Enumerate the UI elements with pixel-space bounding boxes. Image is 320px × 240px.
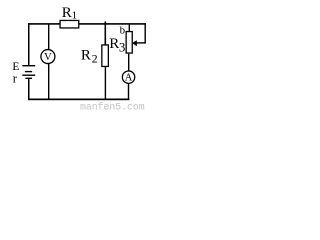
battery E plate short	[25, 71, 32, 72]
wire bottom rail	[28, 99, 129, 101]
wire ammeter bottom lead	[128, 84, 129, 99]
battery E plate long lower	[22, 75, 35, 76]
wire R3 bottom lead	[128, 54, 129, 71]
rheostat wiper arrowhead	[132, 40, 137, 46]
svg-text:A: A	[125, 73, 133, 84]
voltmeter V1 circle	[41, 50, 55, 64]
ammeter A1 circle	[122, 71, 134, 83]
wire right border from top rail	[145, 23, 146, 43]
wire R2 branch upper	[105, 22, 107, 46]
wire R3 top lead	[129, 24, 130, 31]
resistor R1 box	[60, 20, 79, 28]
svg-text:V: V	[44, 52, 52, 63]
svg-text:3: 3	[119, 39, 126, 54]
wire voltmeter branch lower	[48, 64, 49, 100]
wire voltmeter branch upper	[48, 24, 49, 50]
resistor R2 box	[102, 45, 109, 66]
battery E plate short lower	[25, 78, 32, 79]
svg-text:manfen5.com: manfen5.com	[80, 101, 145, 112]
wire wiper arm horizontal	[135, 42, 146, 43]
svg-text:R: R	[81, 47, 91, 63]
svg-text:R: R	[62, 5, 72, 21]
wire left vertical upper	[28, 23, 30, 66]
battery E plate long top	[22, 65, 35, 66]
svg-text:2: 2	[92, 51, 98, 65]
wire top rail	[28, 23, 146, 25]
wire left vertical lower	[28, 79, 30, 101]
rheostat R3 box	[126, 32, 132, 54]
svg-text:b: b	[120, 25, 126, 37]
wire R2 branch lower	[105, 67, 106, 99]
svg-text:R: R	[109, 36, 119, 52]
svg-text:1: 1	[72, 10, 78, 22]
